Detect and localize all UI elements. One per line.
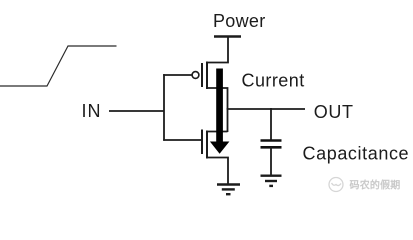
capacitor C load plates xyxy=(261,141,282,148)
ground symbol under capacitor xyxy=(261,176,282,186)
transistor M2 NMOS gate bar xyxy=(201,130,203,155)
input ramp waveform xyxy=(0,46,117,86)
wire NMOS drain lead xyxy=(207,131,228,133)
wire NMOS source lead xyxy=(207,158,228,185)
wire gate vertical xyxy=(163,74,165,141)
wire NMOS gate lead xyxy=(163,139,202,141)
transistor M1 PMOS gate bubble xyxy=(192,72,199,79)
svg-text:Power: Power xyxy=(213,11,266,31)
node OUT wire xyxy=(227,108,305,110)
svg-text:IN: IN xyxy=(82,101,102,121)
watermark icon xyxy=(329,178,343,192)
ground symbol under NMOS xyxy=(217,185,240,195)
transistor M1 PMOS gate bar xyxy=(201,63,203,87)
wire OUT to NMOS drain xyxy=(227,108,229,132)
svg-text:码农的假期: 码农的假期 xyxy=(350,178,401,191)
power rail symbol xyxy=(214,35,241,38)
transistor M2 NMOS channel bar xyxy=(206,131,208,159)
svg-text:Capacitance: Capacitance xyxy=(303,144,410,164)
svg-text:OUT: OUT xyxy=(314,102,354,122)
transistor M1 PMOS channel bar xyxy=(206,62,208,90)
wire IN to gate xyxy=(109,110,164,112)
wire PMOS source lead to power xyxy=(207,37,228,63)
current arrow (bold) xyxy=(210,69,230,154)
wire PMOS gate lead xyxy=(163,74,192,76)
wire PMOS drain lead xyxy=(207,88,228,109)
capacitor C load : top lead xyxy=(270,108,272,140)
capacitor bottom lead xyxy=(270,147,272,175)
svg-text:Current: Current xyxy=(242,70,305,90)
